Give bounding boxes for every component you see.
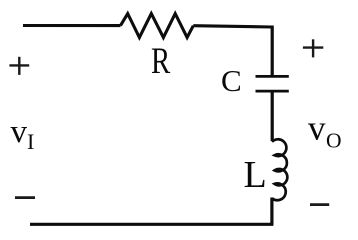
svg-text:R: R <box>151 40 171 81</box>
capacitor C bottom plate <box>256 90 289 93</box>
inductor L (coil of 4 arcs) <box>272 139 287 200</box>
resistor R <box>121 14 194 38</box>
svg-text:L: L <box>244 154 267 196</box>
wire: inductor L to bottom wire <box>270 198 273 226</box>
minus sign (vI negative terminal) <box>15 196 35 199</box>
wire: capacitor C bottom plate to inductor L <box>271 92 274 141</box>
svg-text:vI: vI <box>11 114 35 154</box>
wire: bottom horizontal from inductor node to vI- terminal <box>30 223 273 226</box>
wire: top-left horizontal from vI+ terminal to resistor R <box>23 24 121 27</box>
plus sign (vO positive terminal) <box>303 39 323 57</box>
label R <box>151 40 171 81</box>
wire: resistor R to top-right corner node <box>193 26 272 27</box>
wire: top-right corner down to capacitor C top plate <box>271 26 274 76</box>
svg-text:vO: vO <box>308 108 342 152</box>
capacitor C top plate <box>256 75 289 78</box>
plus sign (vI positive terminal) <box>9 57 29 75</box>
minus sign (vO negative terminal) <box>310 203 329 206</box>
svg-text:C: C <box>221 63 242 98</box>
